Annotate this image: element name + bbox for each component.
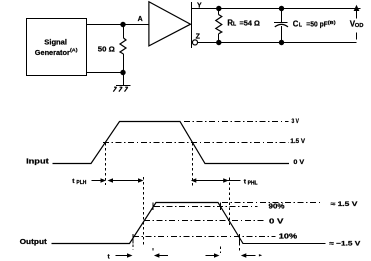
tick: output fall 90% [220,203,222,211]
junction dot RL top [216,6,221,11]
svg-text:(A): (A) [70,47,78,53]
svg-text:≈ 1.5 V: ≈ 1.5 V [331,201,359,208]
svg-text:=50 pF: =50 pF [306,20,328,29]
output 0V level line [144,220,265,222]
junction dot CL bottom [279,40,284,45]
input waveform [53,122,290,164]
tick: output fall 10% [239,234,241,244]
svg-text:10%: 10% [279,234,298,241]
VOD bottom tick [356,33,358,40]
inverting output bubble (Z) [192,40,197,45]
svg-text:A: A [138,16,143,23]
svg-text:Generator: Generator [35,48,70,57]
svg-text:C: C [293,20,299,29]
output 90% level line [154,206,258,208]
svg-text:Input: Input [26,156,49,165]
dashed vertical: output rise 0V crossing (tPLH) [143,177,145,247]
svg-text:Z: Z [196,33,201,40]
driver U1 triangle [149,2,191,46]
rise time left arrow [116,255,129,257]
svg-text:(B): (B) [328,20,336,26]
wire: Y output rail [192,8,361,10]
svg-text:0 V: 0 V [293,159,304,166]
ground [123,73,125,86]
svg-text:3 V: 3 V [292,118,300,125]
VOD measurement arrow [356,10,358,19]
output 10% level line [133,236,276,238]
wire: generator output to driver input [87,24,149,26]
dashed vertical: input fall 1.5V crossing [192,143,194,187]
wire: Z output rail [198,42,357,44]
dashed vertical below rise 90% tick [152,248,154,252]
1.5 V level line [103,142,289,144]
3 V level line [184,121,289,123]
svg-text:PHL: PHL [248,180,258,186]
wire: generator bottom to resistor bottom [87,72,124,74]
output waveform [52,203,244,244]
svg-text:≈ −1.5 V: ≈ −1.5 V [329,240,361,247]
tick: output rise 90% [152,203,154,211]
node A junction dot [120,22,125,27]
signal generator box [27,19,87,76]
fall time end arrowhead [259,254,262,256]
dashed vertical below fall 90% tick [220,247,222,254]
dashed vertical below rise 10% tick [132,245,134,251]
tPHL measure arrows [193,180,241,182]
dashed vertical below fall 10% tick [239,243,241,251]
tPLH measure arrows [109,180,141,182]
svg-text:0 V: 0 V [269,218,284,225]
resistor 50 ohm (source termination) [123,25,125,39]
svg-text:Output: Output [20,237,48,246]
driver output bar [191,2,193,48]
dashed vertical: input rise 1.5V crossing [105,143,107,185]
junction dot at resistor bottom [120,70,125,75]
fall time right arrow [243,255,256,257]
svg-text:OD: OD [355,23,364,29]
fall time left arrow [206,255,217,257]
svg-text:1.5 V: 1.5 V [290,138,305,145]
resistor RL [218,9,220,15]
dashed vertical: output fall 0V crossing (tPHL) [229,178,231,226]
junction dot CL top [279,6,284,11]
svg-text:PLH: PLH [76,180,86,186]
output +1.5V extension line [222,202,322,204]
svg-text:50 Ω: 50 Ω [98,45,115,54]
tPLH leader arrow [92,180,103,182]
capacitor CL [281,9,283,22]
svg-text:90%: 90% [269,204,286,211]
svg-text:Signal: Signal [44,37,67,46]
svg-text:=54 Ω: =54 Ω [240,19,260,28]
rise time right arrow [156,255,169,257]
junction dot RL bottom [216,40,221,45]
tick: output rise 10% [132,234,134,244]
